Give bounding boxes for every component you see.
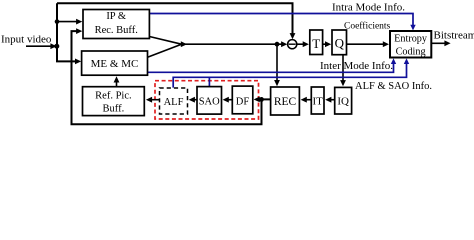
svg-text:Entropy: Entropy: [394, 34, 428, 45]
svg-text:Intra Mode Info.: Intra Mode Info.: [332, 2, 405, 14]
svg-text:SAO: SAO: [199, 97, 220, 108]
svg-text:Rec. Buff.: Rec. Buff.: [95, 25, 138, 36]
svg-text:Q: Q: [335, 36, 345, 51]
svg-text:REC: REC: [274, 96, 297, 108]
svg-text:ME & MC: ME & MC: [91, 58, 139, 70]
svg-text:Input video: Input video: [1, 33, 52, 45]
svg-text:DF: DF: [236, 96, 250, 107]
svg-text:T: T: [312, 36, 320, 51]
svg-text:Bitstream: Bitstream: [434, 29, 474, 41]
svg-text:Ref. Pic.: Ref. Pic.: [95, 91, 131, 102]
svg-text:Coding: Coding: [396, 46, 426, 57]
svg-text:Inter Mode Info.: Inter Mode Info.: [320, 60, 393, 72]
svg-text:ALF: ALF: [164, 97, 184, 108]
svg-text:IT: IT: [313, 96, 324, 108]
svg-text:IP &: IP &: [106, 11, 126, 22]
svg-text:IQ: IQ: [337, 96, 349, 108]
svg-text:Buff.: Buff.: [103, 104, 125, 115]
svg-text:ALF & SAO Info.: ALF & SAO Info.: [355, 81, 432, 92]
svg-text:Coefficients: Coefficients: [344, 20, 391, 31]
